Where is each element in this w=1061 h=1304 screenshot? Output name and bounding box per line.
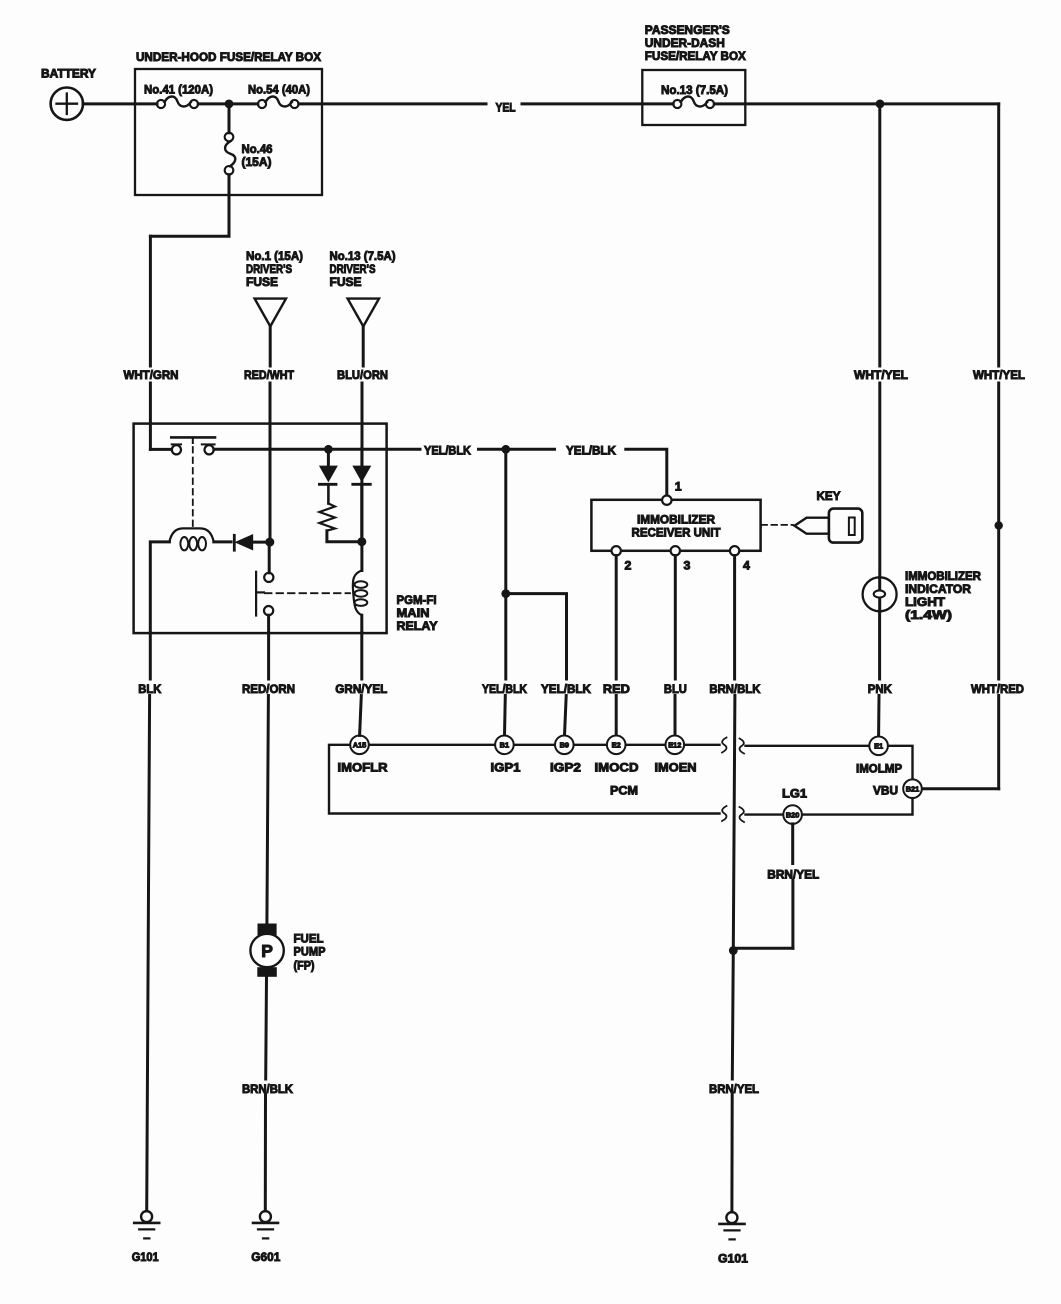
immobilizer receiver unit U1 (591, 500, 760, 551)
immobilizer indicator light bulb (863, 569, 981, 622)
svg-text:No.54 (40A): No.54 (40A) (248, 83, 310, 97)
svg-text:MAIN: MAIN (397, 606, 430, 620)
wire resistor to coil node (327, 531, 358, 542)
svg-text:IMOEN: IMOEN (655, 761, 697, 775)
wire BRN/BLK pin4 down (733, 556, 735, 949)
pin 4 (730, 546, 739, 555)
fuse No.46 (15A) vertical (225, 108, 273, 174)
svg-text:RED/WHT: RED/WHT (244, 368, 294, 382)
svg-text:BRN/YEL: BRN/YEL (709, 1082, 759, 1096)
svg-text:IMOCD: IMOCD (595, 761, 639, 775)
wire RED/WHT (269, 326, 272, 538)
svg-text:WHT/YEL: WHT/YEL (854, 368, 908, 382)
svg-text:LIGHT: LIGHT (905, 595, 945, 609)
splice node right wire (995, 521, 1003, 529)
svg-text:IGP2: IGP2 (550, 761, 581, 775)
svg-text:WHT/GRN: WHT/GRN (124, 368, 179, 382)
svg-text:UNDER-HOOD FUSE/RELAY BOX: UNDER-HOOD FUSE/RELAY BOX (136, 50, 322, 64)
wire node to switch S2 (268, 542, 271, 573)
pin E1 (856, 737, 902, 776)
wire YEL/BLK branch down (504, 449, 507, 593)
svg-text:G601: G601 (251, 1250, 280, 1264)
fuse No.13 (7.5A) (661, 83, 728, 108)
wire YEL/BLK 1 to B1 (504, 594, 507, 679)
relay actuator dashed link (192, 447, 194, 529)
ground G101 right (718, 1212, 748, 1265)
svg-text:PASSENGER'S: PASSENGER'S (645, 23, 730, 37)
svg-text:E1: E1 (874, 742, 883, 751)
wire B21 to right riser done above; wire B20 down (733, 824, 793, 948)
wire YEL right segment (522, 102, 673, 105)
dashed link to key (762, 524, 794, 526)
passenger's under-dash fuse/relay box (642, 23, 746, 125)
wire fuse41 to fuse54 (198, 102, 258, 105)
dashed actuator link to coil L2 (265, 592, 350, 594)
pin E12 (655, 736, 697, 775)
node YEL/BLK split (501, 445, 510, 454)
svg-text:BRN/BLK: BRN/BLK (242, 1082, 293, 1096)
PCM box outline (329, 745, 913, 815)
svg-text:No.13 (7.5A): No.13 (7.5A) (330, 249, 396, 263)
wire BLU pin3 to E12 (674, 556, 677, 736)
wire BLU/ORN (362, 326, 363, 466)
svg-text:BRN/BLK: BRN/BLK (709, 682, 760, 696)
svg-text:No.13 (7.5A): No.13 (7.5A) (661, 83, 728, 97)
relay coil L1 (horizontal) (150, 528, 214, 633)
fuse No.54 (40A) (248, 83, 310, 109)
junction node under-hood (225, 100, 234, 109)
wire WHT/RED segment to B21 (922, 696, 999, 789)
svg-text:G101: G101 (132, 1250, 159, 1264)
svg-text:E2: E2 (612, 741, 621, 750)
svg-text:PCM: PCM (610, 784, 638, 798)
pin 3 (671, 546, 680, 555)
svg-text:4: 4 (743, 559, 750, 573)
diode D3 (arrow to coil) (214, 535, 266, 550)
svg-text:YEL: YEL (496, 101, 516, 115)
pin B21 (873, 779, 922, 798)
svg-text:IGP1: IGP1 (491, 761, 521, 775)
wire BLK relay to ground (147, 633, 151, 1211)
wire S2 to box bottom (267, 615, 270, 633)
wire WHT/GRN (149, 236, 152, 449)
svg-text:IMMOBILIZER: IMMOBILIZER (637, 513, 715, 527)
break mark bottom left (722, 806, 727, 821)
svg-text:(15A): (15A) (242, 155, 272, 169)
node relay center (265, 538, 274, 547)
svg-text:G101: G101 (718, 1252, 748, 1266)
svg-text:IMMOBILIZER: IMMOBILIZER (905, 569, 981, 583)
svg-text:GRN/YEL: GRN/YEL (335, 682, 387, 696)
battery B1 (41, 67, 97, 120)
svg-text:No.1 (15A): No.1 (15A) (246, 249, 303, 263)
svg-text:(FP): (FP) (294, 959, 315, 973)
fuel pump FP (250, 924, 325, 977)
svg-text:BLU: BLU (664, 682, 687, 696)
key symbol (795, 489, 863, 543)
break mark bottom right (740, 807, 745, 822)
svg-text:RED/ORN: RED/ORN (242, 682, 295, 696)
svg-text:PNK: PNK (868, 682, 892, 696)
svg-text:BLU/ORN: BLU/ORN (337, 368, 388, 382)
node branch split (501, 589, 510, 598)
pin B1 (491, 736, 521, 775)
svg-text:(1.4W): (1.4W) (905, 608, 952, 622)
svg-text:INDICATOR: INDICATOR (905, 582, 971, 596)
svg-text:FUSE/RELAY BOX: FUSE/RELAY BOX (645, 49, 747, 63)
ground G101 left (132, 1211, 160, 1264)
wire WHT/YEL left drop (878, 104, 881, 578)
node coil top junction (357, 537, 366, 546)
svg-text:E12: E12 (668, 741, 681, 750)
wire fuse46 down and left elbow (150, 175, 229, 237)
wire to right corner (714, 102, 999, 105)
svg-text:3: 3 (684, 559, 691, 573)
svg-text:A15: A15 (353, 741, 367, 750)
svg-text:BATTERY: BATTERY (41, 67, 97, 81)
diode D2 (353, 466, 371, 538)
wire PNK bulb to E1 (879, 611, 880, 736)
svg-text:RECEIVER UNIT: RECEIVER UNIT (632, 526, 721, 540)
svg-text:RELAY: RELAY (397, 619, 439, 633)
break mark top left (722, 738, 727, 753)
break mark top right (740, 739, 745, 754)
junction node top right (876, 100, 885, 109)
pin 2 (612, 546, 621, 555)
svg-text:WHT/RED: WHT/RED (971, 682, 1024, 696)
svg-text:BLK: BLK (138, 682, 161, 696)
svg-text:UNDER-DASH: UNDER-DASH (645, 36, 725, 50)
pin E2 (595, 736, 639, 775)
svg-text:B21: B21 (906, 785, 920, 794)
wire WHT/YEL right drop (997, 104, 1000, 679)
svg-text:No.46: No.46 (242, 142, 273, 156)
PGM-FI main relay box (134, 424, 439, 633)
pin 1 (662, 496, 671, 505)
wire battery to fuse box (83, 102, 157, 105)
svg-text:BRN/YEL: BRN/YEL (767, 868, 819, 882)
svg-text:P: P (261, 941, 273, 961)
wire RED pin2 to E2 (615, 556, 618, 736)
wire branch to B9 drop (506, 594, 567, 679)
svg-text:B1: B1 (500, 741, 509, 750)
relay coil L2 (vertical) (353, 448, 367, 633)
wire YEL/BLK from contact (214, 448, 420, 451)
fuse No.41 (120A) (144, 83, 213, 109)
svg-text:PGM-FI: PGM-FI (397, 593, 437, 607)
svg-text:FUSE: FUSE (330, 275, 362, 289)
relay contact switch S1 (150, 437, 215, 454)
pin A15 (338, 736, 388, 775)
svg-text:YEL/BLK: YEL/BLK (482, 682, 527, 696)
diode D1 (319, 452, 336, 485)
svg-text:2: 2 (625, 559, 632, 573)
svg-text:YEL/BLK: YEL/BLK (541, 682, 591, 696)
wire RED/ORN relay to pump (267, 633, 269, 924)
svg-text:FUSE: FUSE (246, 275, 278, 289)
svg-text:YEL/BLK: YEL/BLK (424, 444, 471, 458)
wire BRN/BLK pump to ground (265, 977, 266, 1211)
resistor R1 (319, 484, 335, 530)
fuse No.13 (7.5A) driver's fuse (330, 249, 396, 326)
svg-text:IMOLMP: IMOLMP (856, 762, 902, 776)
svg-text:FUEL: FUEL (294, 932, 324, 946)
svg-text:PUMP: PUMP (294, 945, 326, 959)
fuse No.1 (15A) driver's fuse (246, 249, 303, 326)
wire YEL/BLK segment with junction (479, 448, 555, 451)
svg-text:DRIVER'S: DRIVER'S (330, 262, 376, 276)
wire YEL/BLK to pin 1 (626, 449, 667, 496)
svg-text:1: 1 (675, 480, 682, 494)
svg-text:YEL/BLK: YEL/BLK (566, 444, 616, 458)
node BRN junction (729, 946, 738, 955)
node YEL/BLK tap (324, 445, 333, 454)
svg-text:KEY: KEY (817, 489, 842, 503)
svg-text:VBU: VBU (873, 784, 898, 798)
ground G601 (251, 1211, 280, 1264)
under-hood fuse/relay box (135, 50, 322, 195)
wire BRN/YEL to ground (732, 948, 733, 1212)
wire YEL left segment (299, 102, 486, 105)
pin B20 (782, 787, 807, 824)
svg-text:LG1: LG1 (782, 787, 807, 801)
svg-text:No.41 (120A): No.41 (120A) (144, 83, 213, 97)
pin B9 (550, 736, 581, 775)
svg-text:DRIVER'S: DRIVER'S (246, 262, 292, 276)
relay contact switch S2 (256, 572, 273, 616)
svg-text:B9: B9 (560, 741, 569, 750)
svg-text:RED: RED (603, 682, 630, 696)
svg-text:B20: B20 (786, 810, 800, 819)
svg-text:IMOFLR: IMOFLR (338, 761, 388, 775)
wire GRN/YEL relay to A15 (360, 633, 362, 736)
svg-text:WHT/YEL: WHT/YEL (973, 368, 1025, 382)
